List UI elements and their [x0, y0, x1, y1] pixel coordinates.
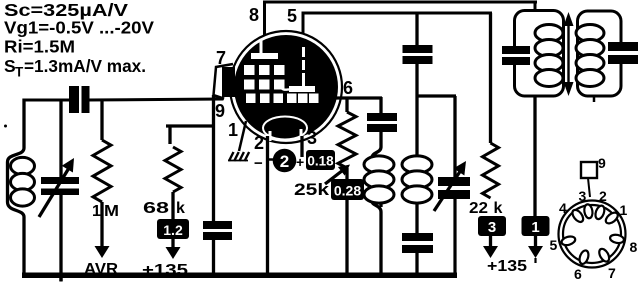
- svg-text:1: 1: [620, 202, 628, 218]
- svg-text:2: 2: [280, 152, 289, 171]
- svg-text:3: 3: [307, 128, 317, 148]
- svg-text:1: 1: [92, 203, 101, 220]
- svg-text:9: 9: [598, 155, 606, 171]
- svg-text:+135: +135: [487, 258, 527, 275]
- svg-text:3: 3: [488, 219, 496, 236]
- svg-text:9: 9: [215, 101, 225, 121]
- svg-text:k: k: [494, 200, 503, 217]
- svg-text:8: 8: [249, 5, 259, 25]
- svg-text:22: 22: [469, 200, 488, 217]
- svg-text:T: T: [15, 65, 24, 80]
- svg-text:−: −: [254, 155, 263, 172]
- svg-text:1.2: 1.2: [163, 222, 183, 238]
- svg-text:1: 1: [531, 219, 539, 236]
- svg-text:1: 1: [228, 120, 238, 140]
- svg-text:6: 6: [343, 78, 353, 98]
- svg-text:S: S: [4, 56, 16, 76]
- svg-text:7: 7: [608, 265, 616, 281]
- svg-text:4: 4: [559, 200, 567, 216]
- svg-text:Vg1=-0.5V ...-20V: Vg1=-0.5V ...-20V: [4, 18, 154, 38]
- svg-text:7: 7: [216, 48, 226, 68]
- svg-text:8: 8: [630, 239, 638, 255]
- svg-text:5: 5: [287, 6, 297, 26]
- svg-text:2: 2: [254, 133, 264, 153]
- svg-text:68: 68: [143, 200, 169, 217]
- svg-text:2: 2: [599, 188, 607, 204]
- svg-text:=1.3mA/V max.: =1.3mA/V max.: [24, 56, 146, 76]
- svg-text:3: 3: [579, 188, 587, 204]
- svg-text:6: 6: [574, 266, 582, 282]
- svg-text:0.28: 0.28: [334, 183, 361, 199]
- svg-text:Ri=1.5M: Ri=1.5M: [4, 37, 75, 57]
- svg-text:M: M: [104, 203, 119, 220]
- svg-text:0.18: 0.18: [307, 154, 334, 169]
- svg-text:5: 5: [550, 237, 558, 253]
- svg-text:k: k: [176, 200, 185, 217]
